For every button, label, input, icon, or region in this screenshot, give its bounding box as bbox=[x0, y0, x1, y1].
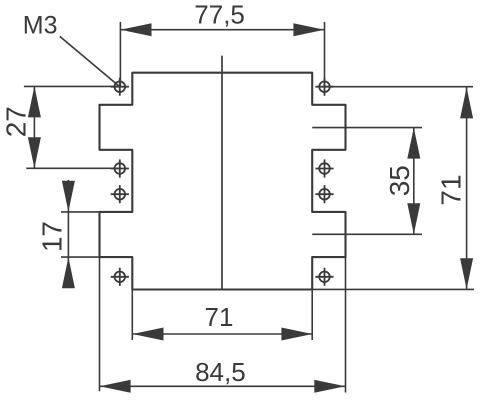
svg-text:71: 71 bbox=[205, 302, 234, 332]
dimension 71 right line bbox=[466, 87, 468, 289]
svg-text:71: 71 bbox=[436, 174, 467, 205]
svg-text:77,5: 77,5 bbox=[194, 0, 245, 30]
leader line M3 bbox=[60, 36, 120, 86]
hole H2 left mid-upper bbox=[111, 159, 129, 177]
dimension 17 arrow bottom bbox=[62, 257, 75, 288]
dimension 17 arrow top bbox=[62, 181, 75, 212]
dimension 71 bottom extension lines bbox=[132, 290, 312, 341]
dimension 35 arrow bottom bbox=[407, 203, 420, 234]
dimension 71 bottom arrow right bbox=[281, 328, 312, 341]
dimension 77,5 line bbox=[121, 29, 325, 31]
dimension 35 extension lines bbox=[312, 128, 422, 235]
dimension 17 line bbox=[67, 180, 69, 283]
hole H1 top-left bbox=[111, 78, 129, 96]
dimension 27 extension lines bbox=[24, 86, 120, 168]
hole H7 right mid-lower bbox=[315, 185, 333, 203]
dimension 84,5 arrow right bbox=[314, 380, 345, 393]
dimension 77,5 extension lines bbox=[120, 22, 324, 87]
centerline bbox=[221, 56, 223, 290]
dimension 71 right arrow bottom bbox=[460, 258, 473, 289]
dimension 35 arrow top bbox=[407, 128, 420, 159]
dimension 77,5 arrow right bbox=[293, 23, 324, 36]
dimension 77,5 arrow left bbox=[121, 23, 152, 36]
svg-text:84,5: 84,5 bbox=[195, 357, 246, 387]
dimension 71 bottom arrow left bbox=[133, 328, 164, 341]
dimension 84,5 arrow left bbox=[100, 380, 131, 393]
svg-text:35: 35 bbox=[384, 165, 415, 196]
svg-text:27: 27 bbox=[1, 106, 32, 137]
dimension 71 right arrow top bbox=[460, 87, 473, 118]
part outline bbox=[100, 73, 346, 290]
hole H5 top-right bbox=[315, 78, 333, 96]
dimension 35 line bbox=[413, 128, 415, 235]
dimension 17 extension lines bbox=[61, 212, 100, 257]
dimension 71 bottom line bbox=[133, 333, 313, 335]
dimension 84,5 extension lines bbox=[100, 257, 346, 392]
dimension 84,5 line bbox=[100, 385, 346, 387]
dimension 27 arrow bottom bbox=[28, 137, 41, 168]
hole H3 left mid-lower bbox=[111, 185, 129, 203]
hole H4 bottom-left bbox=[111, 268, 129, 286]
svg-text:17: 17 bbox=[37, 221, 68, 252]
dimension 71 right extension lines bbox=[312, 87, 474, 290]
hole H6 right mid-upper bbox=[315, 159, 333, 177]
dimension 27 line bbox=[33, 86, 35, 168]
hole H8 bottom-right bbox=[315, 268, 333, 286]
dimension 27 arrow top bbox=[28, 86, 41, 117]
svg-text:M3: M3 bbox=[23, 12, 58, 40]
